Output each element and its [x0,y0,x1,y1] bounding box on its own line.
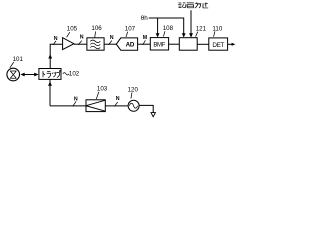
svg-text:M: M [143,35,148,41]
svg-text:AD: AD [126,41,135,48]
detector 110 [209,38,228,50]
bus slash N (LO path) [73,97,78,107]
wire: θh to 121 [158,18,186,38]
svg-text:110: 110 [212,25,222,32]
label 101 [10,56,24,68]
wire: 101 to 102 bidirectional arrow [20,73,38,77]
svg-text:DET: DET [212,42,224,49]
label 105 [67,26,78,38]
bottom wire to 103 [50,105,86,107]
wire: bottom row into trap 102, arrow up [48,79,52,105]
label 107 [125,26,136,37]
svg-text:107: 107 [125,26,136,33]
output wire from DET [228,43,236,46]
amplifier 105 [63,38,74,50]
label 121 [196,26,207,37]
label 102 [63,71,80,78]
svg-text:103: 103 [97,86,108,93]
wire: 設定方位 to 121 [189,10,193,37]
local oscillator 120 [128,100,139,111]
svg-text:N: N [54,36,58,42]
bus slash N [78,35,84,45]
wire: θh to BMF 108 [149,18,160,38]
trap filter 102 [39,69,61,80]
bus slash N [109,35,114,45]
LO amplifier 103 [86,100,105,112]
bus slash N at antenna input [53,36,58,45]
wire: 120 output down with open arrowhead [139,105,155,116]
label 108 [163,25,174,36]
A/D converter 107 [116,38,137,50]
wire: 105 to 106 [74,43,87,45]
label 110 [212,25,222,36]
svg-text:106: 106 [91,25,102,32]
svg-text:121: 121 [196,26,207,33]
svg-text:N: N [80,35,84,41]
svg-text:BMF: BMF [153,42,165,48]
band-pass filter 106 [87,38,104,50]
label 120 [128,86,139,98]
wire: 103 to 120 [105,105,127,107]
signal source 101 [7,68,20,81]
svg-text:108: 108 [163,25,174,32]
bus slash M [138,35,151,45]
wire: trap 102 up to top row [48,44,62,68]
beam forming filter 108 [150,38,168,50]
wire: BMF 108 to 121 [169,43,180,45]
wire: 106 to 107 [104,43,116,45]
label 設定方位 (set azimuth) [178,2,208,8]
phase shifter 121 [179,38,197,51]
svg-text:102: 102 [69,71,80,78]
wire: 121 to DET 110 [197,43,209,45]
svg-text:N: N [74,97,78,103]
svg-text:120: 120 [128,86,139,93]
svg-text:N: N [116,96,120,102]
bus slash N [115,96,120,106]
svg-text:105: 105 [67,26,78,33]
label 103 [96,86,107,99]
svg-text:101: 101 [13,56,24,63]
label 106 [91,25,102,37]
svg-text:N: N [110,35,114,41]
svg-text:θh: θh [141,15,149,22]
